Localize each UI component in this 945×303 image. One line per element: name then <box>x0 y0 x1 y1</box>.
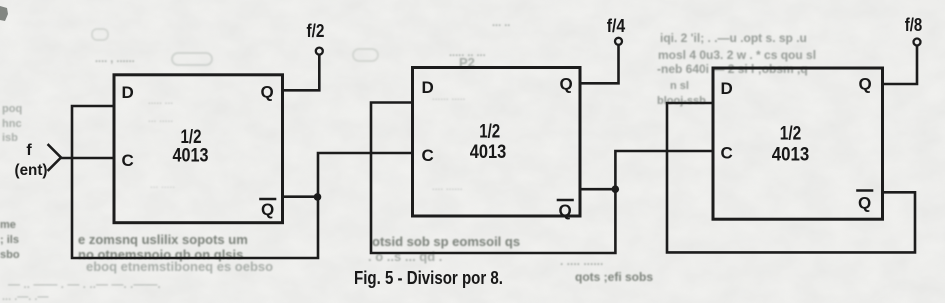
svg-text:D: D <box>422 78 434 97</box>
svg-text:... .....: ... ..... <box>150 180 175 191</box>
svg-text:Q: Q <box>859 75 872 94</box>
svg-text:C: C <box>122 151 134 170</box>
svg-text:... .....: ... ..... <box>148 114 173 125</box>
value label 1/2 4013 (U1) <box>173 127 209 167</box>
svg-text:qots ;efi sobs: qots ;efi sobs <box>575 270 653 284</box>
junction dot node A <box>314 193 322 201</box>
flip-flop U1 box (1/2 4013) <box>114 75 283 223</box>
svg-text:Q: Q <box>559 201 572 220</box>
output terminal f/8 <box>905 15 923 46</box>
wire node B to C pin U3 <box>615 151 713 189</box>
svg-text:...... .....: ...... ..... <box>432 92 466 103</box>
flip-flop U3 box (1/2 4013) <box>713 68 883 219</box>
svg-text:isb: isb <box>2 132 18 144</box>
svg-text:C: C <box>721 144 733 163</box>
svg-text:eboq etnemstiboneq es oebso: eboq etnemstiboneq es oebso <box>86 259 273 274</box>
svg-text:f/8: f/8 <box>905 15 923 35</box>
svg-text:f: f <box>26 142 32 159</box>
wire U1 Q to f/2 terminal <box>283 56 320 91</box>
wire f input to C pin U1 <box>61 157 114 160</box>
svg-text:. o ..s ... qd .: . o ..s ... qd . <box>368 249 442 264</box>
svg-text:blooj-ssb: blooj-ssb <box>657 95 706 107</box>
flip-flop U2 box (1/2 4013) <box>413 68 581 217</box>
wire node A to C pin U2 <box>318 153 413 197</box>
svg-text:; ils: ; ils <box>0 234 19 246</box>
input terminal f (ent) <box>15 142 62 179</box>
svg-text:1/2: 1/2 <box>780 124 802 145</box>
wire U2 Q to f/4 terminal <box>580 46 619 84</box>
svg-text:iqi. 2 'il; . .—u .opt s.: iqi. 2 'il; . .—u .opt s. sp .u <box>660 31 807 45</box>
svg-text:Fig. 5 - Divisor por 8.: Fig. 5 - Divisor por 8. <box>354 267 503 288</box>
svg-text:4013: 4013 <box>173 146 209 167</box>
svg-text:f/2: f/2 <box>307 21 325 41</box>
svg-text:Q: Q <box>261 200 274 219</box>
svg-text:poq: poq <box>2 103 22 115</box>
value label 1/2 4013 (U2) <box>470 122 507 164</box>
output terminal f/2 <box>307 21 325 55</box>
svg-text:C: C <box>422 146 434 165</box>
output terminal f/4 <box>607 16 626 45</box>
svg-text:1/2: 1/2 <box>479 122 500 143</box>
wire feedback U3 Q-bar to D pin U3 <box>667 103 915 252</box>
svg-text:..... .. ...: ..... .. ... <box>449 47 486 59</box>
svg-text:Q: Q <box>858 194 871 213</box>
svg-text:.... ......: .... ...... <box>432 182 463 193</box>
svg-text:D: D <box>122 83 134 102</box>
svg-text:... ..: ... .. <box>492 17 510 29</box>
wire U2 Q-bar to junction node B <box>580 188 615 191</box>
pin label Q-bar (U2) <box>558 200 573 220</box>
svg-text:. .... ......: . .... ...... <box>560 254 603 268</box>
wire U1 Q-bar to junction node A <box>283 195 318 198</box>
svg-text:me: me <box>0 219 16 231</box>
svg-text:f/4: f/4 <box>607 16 626 36</box>
svg-text:n sl: n sl <box>670 80 689 92</box>
svg-text:D: D <box>721 79 733 98</box>
value label 1/2 4013 (U3) <box>772 124 810 166</box>
junction dot node B <box>612 185 620 193</box>
svg-text:otsid sob sp eomsoil qs: otsid sob sp eomsoil qs <box>372 234 520 249</box>
svg-text:Q: Q <box>560 75 573 94</box>
svg-text:— .. —— . — . ..— —. .——.: — .. —— . — . ..— —. .——. <box>8 277 161 291</box>
svg-text:.... , ......: .... , ...... <box>95 53 135 65</box>
wire feedback node B to D pin U2 <box>371 103 615 254</box>
pin label Q-bar (U3) <box>858 191 873 213</box>
svg-text:hnc: hnc <box>2 118 22 130</box>
pin label Q-bar (U1) <box>261 199 276 219</box>
wire feedback node A to D pin U1 <box>72 106 318 258</box>
wire U3 Q to f/8 terminal <box>883 47 918 85</box>
svg-text:Q: Q <box>261 83 274 102</box>
svg-text:..... ...: ..... ... <box>148 96 173 107</box>
svg-text:... .—. .—: ... .—. .— <box>2 291 48 303</box>
svg-text:sbo: sbo <box>0 249 20 261</box>
svg-text:4013: 4013 <box>470 142 507 163</box>
svg-text:mosl 4 0u3. 2 w . * cs q: mosl 4 0u3. 2 w . * cs qou sl <box>658 48 816 62</box>
svg-text:e zomsnq uslilix sopots um: e zomsnq uslilix sopots um <box>78 232 248 247</box>
svg-text:(ent): (ent) <box>15 162 48 179</box>
svg-text:4013: 4013 <box>772 145 810 166</box>
